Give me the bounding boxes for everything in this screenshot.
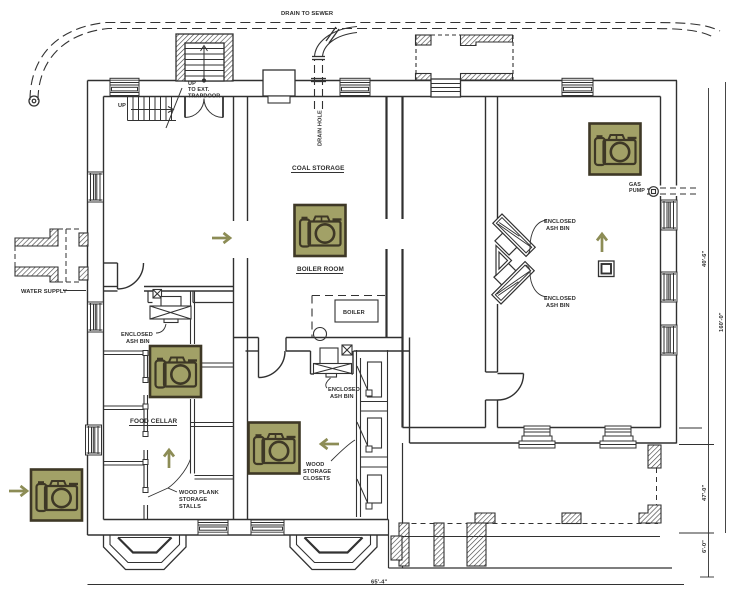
- svg-text:FOOD CELLAR: FOOD CELLAR: [130, 418, 178, 425]
- svg-text:ENCLOSED: ENCLOSED: [121, 332, 153, 338]
- wire: left exterior wall outer line: [87, 81, 89, 536]
- stairs: interior basement stair: [128, 88, 183, 128]
- wire: bottom wall inner line left section: [104, 519, 389, 521]
- svg-text:STORAGE: STORAGE: [179, 497, 207, 503]
- svg-text:47'-0": 47'-0": [702, 485, 708, 501]
- gas pump: symbol: [647, 187, 658, 197]
- svg-text:ASH BIN: ASH BIN: [546, 303, 570, 309]
- svg-text:BOILER ROOM: BOILER ROOM: [297, 266, 344, 273]
- food cellar: stall posts: [143, 351, 148, 493]
- camera 1: right room: [590, 124, 641, 175]
- terrace: grade line left: [88, 584, 685, 586]
- pipe: drain hole couplings: [311, 27, 339, 82]
- window: left wall window 1: [88, 172, 104, 202]
- pipe: water supply dashed connectors: [15, 229, 79, 282]
- label: WOOD PLANK STORAGE STALLS with leader: [148, 459, 219, 510]
- dimension: right dimension line 1: [679, 82, 726, 577]
- ash bin: left (food cellar) enclosed ash bin: [150, 290, 191, 323]
- label: WOOD STORAGE CLOSETS with leader: [303, 440, 355, 482]
- bay window: left bay: [104, 535, 187, 570]
- column: right room small square symbol: [599, 261, 615, 277]
- terrace: porch horizontal line mid: [403, 536, 661, 538]
- stairs: direction arrow: [131, 109, 172, 111]
- window: right wall window 1: [661, 200, 677, 230]
- ash bin: right room upper tilted bin: [485, 214, 535, 264]
- svg-text:TRAPDOOR: TRAPDOOR: [188, 94, 220, 100]
- stairwell: trapdoor stair up arrow: [201, 46, 208, 83]
- wall: food cellar north wall top line: [104, 286, 118, 288]
- wire: left exterior wall inner line: [103, 97, 105, 520]
- pipe: water supply hatched bars: [15, 229, 88, 282]
- wall: right room west wall stub below door: [485, 400, 487, 428]
- ash bin: right room center triangle: [496, 246, 512, 276]
- svg-text:160'-0": 160'-0": [719, 312, 725, 332]
- areaway: top hatched blocks and dashed outline: [416, 35, 514, 80]
- wall: ash bin niche outline: [148, 291, 234, 303]
- door: entry hall door leaf: [117, 263, 119, 289]
- camera 4: lower center room: [249, 423, 300, 474]
- svg-text:UP: UP: [118, 103, 126, 109]
- window: right room south sill 1 (porch columns): [519, 426, 555, 448]
- pipe: drain hole dashed riser: [315, 59, 323, 109]
- svg-text:ENCLOSED: ENCLOSED: [544, 296, 576, 302]
- wall: right room west wall line x=498 upper: [497, 97, 499, 221]
- stairwell: exterior trapdoor stair enclosure hatched frame: [176, 34, 233, 81]
- door: trapdoor double door arcs: [185, 99, 223, 118]
- food cellar: east wall of stalls: [191, 291, 234, 520]
- terrace: east strip walls between sections: [389, 443, 403, 568]
- closets: open door diagonals: [357, 366, 372, 509]
- terrace: porch bottom edge: [403, 567, 673, 569]
- wall: coal storage east wall x=386 upper: [385, 97, 387, 220]
- wall: right room west wall line x=485: [485, 97, 487, 373]
- boiler: equipment box with label: [335, 300, 378, 322]
- wall: south wall of right rooms top line: [498, 427, 661, 429]
- chimney: block on top wall right: [431, 79, 461, 97]
- wire: bottom wall outer line left section: [88, 534, 389, 536]
- svg-text:ASH BIN: ASH BIN: [546, 226, 570, 232]
- svg-text:ASH BIN: ASH BIN: [330, 394, 354, 400]
- svg-text:65'-4": 65'-4": [371, 580, 387, 586]
- door: entry hall door swing arc: [118, 263, 144, 289]
- wall: interior wall x=247 long segment: [247, 258, 249, 520]
- svg-text:BOILER: BOILER: [343, 310, 365, 316]
- svg-text:6'-0": 6'-0": [702, 540, 708, 553]
- dimension: rotated texts: [702, 251, 725, 553]
- terrace: porch dashed edge lines: [403, 468, 659, 524]
- pipe: gas service dashed lines: [660, 188, 698, 194]
- window: top wall sill 1: [110, 78, 139, 95]
- svg-text:WOOD: WOOD: [306, 462, 324, 468]
- svg-text:PUMP: PUMP: [629, 188, 645, 194]
- svg-text:ENCLOSED: ENCLOSED: [544, 219, 576, 225]
- arrow: center room left arrow: [321, 439, 339, 449]
- boiler: sump circle: [314, 328, 327, 341]
- pipe: drain outlet circle: [29, 96, 39, 106]
- label: ENCLOSED ASH BIN (right upper) with leader: [526, 219, 576, 256]
- wall: right room west wall line x=498 lower: [497, 304, 499, 372]
- bay window: center bay: [290, 535, 377, 570]
- label: GAS PUMP: [629, 182, 645, 194]
- arrow: food cellar up arrow: [164, 450, 174, 468]
- door: boiler room door arc: [259, 351, 286, 378]
- camera 5: outside left: [31, 470, 82, 521]
- door: boiler room door leaf: [258, 351, 260, 378]
- svg-text:ENCLOSED: ENCLOSED: [328, 387, 360, 393]
- camera 2: boiler room: [295, 205, 346, 256]
- wire: right exterior wall outer line: [676, 81, 678, 444]
- svg-text:STALLS: STALLS: [179, 504, 201, 510]
- window: right room south sill 2 (porch columns): [600, 426, 636, 448]
- svg-text:WOOD PLANK: WOOD PLANK: [179, 490, 219, 496]
- svg-text:40'-6": 40'-6": [702, 251, 708, 267]
- svg-text:CLOSETS: CLOSETS: [303, 476, 330, 482]
- pipe: drain to sewer dashed double line: [30, 23, 720, 101]
- svg-text:COAL STORAGE: COAL STORAGE: [292, 165, 345, 172]
- label: ENCLOSED ASH BIN (center) with leader: [326, 378, 360, 400]
- door: right room door swing arc: [498, 374, 524, 401]
- food cellar: stall walls left column: [104, 351, 148, 520]
- camera 3: food cellar upper: [150, 346, 201, 397]
- closets: wood storage closets east wall of center room: [357, 350, 388, 520]
- wall: boiler room south wall bottom line: [246, 350, 259, 352]
- wall: right room west wall cap: [486, 371, 498, 373]
- label: ENCLOSED ASH BIN (left) with leader: [121, 324, 166, 345]
- ash bin: right room lower tilted bin: [484, 254, 534, 304]
- window: bottom wall sill left: [198, 520, 228, 535]
- window: right wall window 3: [661, 325, 677, 355]
- window: left wall window 3: [86, 425, 102, 455]
- arrow: outside left right arrow: [9, 486, 27, 496]
- window: top wall sill 3: [562, 78, 593, 95]
- wall: interior wall x=247 upper segment: [247, 97, 249, 222]
- window: right wall window 2: [661, 272, 677, 302]
- wall: door jambs: [258, 338, 260, 352]
- wall: interior wall x=233 upper segment: [233, 97, 235, 222]
- stairwell: vestibule side walls: [185, 97, 223, 118]
- window: top wall sill 2: [340, 78, 370, 95]
- wire: top exterior wall outer line: [88, 80, 678, 82]
- svg-text:DRAIN HOLE: DRAIN HOLE: [318, 110, 324, 146]
- svg-text:TO EXT.: TO EXT.: [188, 87, 210, 93]
- arrow: coal storage right arrow: [212, 233, 230, 243]
- wall: entry hall door head stub: [104, 262, 118, 264]
- arrow: right room up arrow: [597, 234, 607, 252]
- svg-text:ASH BIN: ASH BIN: [126, 339, 150, 345]
- window: bottom wall sill center: [251, 520, 284, 535]
- wall: south wall of right rooms bottom line: [410, 442, 677, 444]
- wall: interior wall x=233 lower segment: [233, 258, 235, 520]
- wall: corridor west wall x=402 upper: [401, 97, 403, 220]
- terrace: porch piers hatched: [391, 445, 661, 566]
- chimney: block on top wall left: [263, 70, 295, 103]
- wall: food cellar north wall bottom line: [104, 290, 118, 292]
- stairwell: trapdoor stair treads: [185, 49, 224, 77]
- wall: corridor west wall inner x=409: [409, 338, 411, 444]
- stairs: break line: [166, 88, 182, 128]
- label: UP TO EXT. TRAPDOOR: [188, 81, 220, 100]
- boiler: dashed platform outline: [312, 296, 387, 338]
- wall: center ash bin niche sides: [310, 351, 312, 374]
- svg-text:WATER SUPPLY: WATER SUPPLY: [21, 289, 67, 295]
- label: ENCLOSED ASH BIN (right lower) with leader: [526, 265, 576, 309]
- ash bin: center enclosed ash bin below boiler wall: [314, 345, 353, 377]
- svg-text:STORAGE: STORAGE: [303, 469, 331, 475]
- wall: coal storage east wall x=386 lower: [385, 249, 387, 338]
- window: left wall window 2: [88, 302, 104, 332]
- door: right room door leaf: [498, 373, 524, 375]
- wire: right exterior wall inner line: [660, 97, 662, 428]
- svg-text:DRAIN TO SEWER: DRAIN TO SEWER: [281, 11, 334, 17]
- wire: top exterior wall inner line: [104, 96, 661, 98]
- wall: corridor west wall x=402 lower: [401, 249, 403, 428]
- wall: boiler room south wall top line: [234, 337, 259, 339]
- wire: gas pipe wall gap: [659, 186, 678, 197]
